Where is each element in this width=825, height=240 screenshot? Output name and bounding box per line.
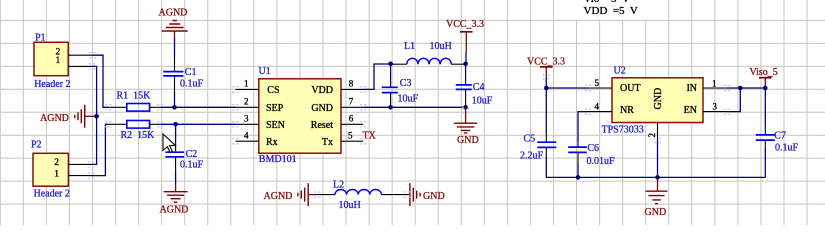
svg-text:IN: IN: [686, 83, 697, 94]
mouse cursor: [163, 134, 176, 152]
svg-text:L1: L1: [404, 41, 415, 52]
svg-text:8: 8: [349, 78, 354, 88]
U2 pin 2 GND: [647, 88, 664, 140]
svg-text:R1 15K: R1 15K: [117, 91, 152, 102]
svg-text:4: 4: [244, 130, 249, 140]
svg-text:VCC_3.3: VCC_3.3: [527, 57, 565, 68]
wire U2 NR to C6: [578, 112, 588, 141]
wire C1 to R1 net: [174, 92, 176, 107]
wire Viso to C7: [764, 85, 766, 127]
junction U2 OUT / VCC: [544, 86, 549, 91]
svg-text:U2: U2: [614, 66, 626, 77]
svg-text:C2: C2: [186, 149, 198, 160]
wire C5 to rail: [546, 156, 578, 177]
U1 pin 1 CS: [236, 79, 280, 97]
svg-text:0.1uF: 0.1uF: [180, 160, 204, 171]
inductor L2: [316, 180, 409, 212]
junction C6/rail: [576, 175, 581, 180]
svg-text:4: 4: [595, 102, 600, 112]
svg-text:GND: GND: [653, 88, 664, 110]
capacitor C4: [456, 64, 493, 108]
power Viso_5: [750, 67, 778, 85]
wire VCC column to rail: [545, 77, 547, 134]
junction C4 bottom: [463, 105, 468, 110]
svg-text:0.1uF: 0.1uF: [180, 79, 204, 90]
header P2: [31, 140, 91, 200]
ground GND at L2: [410, 183, 445, 206]
regulator U2 TPS73033 body: [602, 66, 704, 136]
U1 pin 5 Tx: [322, 130, 363, 148]
svg-text:5: 5: [348, 130, 353, 140]
svg-text:CS: CS: [267, 85, 279, 96]
header P1: [34, 32, 93, 90]
svg-text:1: 1: [244, 79, 249, 89]
svg-text:P1: P1: [35, 32, 46, 43]
svg-text:VCC_3.3: VCC_3.3: [446, 19, 484, 30]
svg-text:10uF: 10uF: [398, 94, 419, 105]
wire U2 GND to rail: [657, 140, 659, 177]
wire U1 pin8 to L1: [363, 64, 392, 89]
svg-text:C1: C1: [185, 67, 197, 78]
junction Viso / C7: [763, 86, 768, 91]
svg-text:OUT: OUT: [620, 83, 641, 94]
svg-text:C6: C6: [587, 143, 599, 154]
svg-text:3: 3: [244, 114, 249, 124]
svg-text:R2 15K: R2 15K: [121, 130, 156, 141]
wire C2 to R2 net: [175, 124, 177, 140]
wire P2 pin1 to R2: [91, 124, 109, 175]
resistor R1: [109, 91, 161, 112]
wire U2 OUT to VCC column: [546, 87, 588, 89]
power AGND left: [40, 105, 95, 128]
svg-text:1: 1: [54, 169, 59, 179]
inductor L1: [392, 41, 465, 64]
junction C1/R1: [172, 105, 177, 110]
svg-text:AGND: AGND: [264, 191, 293, 202]
IC U1 BMD101 body: [259, 66, 342, 165]
wire R1 to U1 pin2: [160, 106, 235, 108]
junction L1 right / C4 / VCC: [463, 62, 468, 67]
svg-text:TPS73033: TPS73033: [602, 124, 644, 135]
svg-text:SEN: SEN: [266, 120, 285, 131]
svg-text:AGND: AGND: [160, 205, 189, 216]
svg-text:EN: EN: [684, 105, 697, 116]
svg-text:C7: C7: [774, 131, 786, 142]
svg-text:AGND: AGND: [159, 8, 188, 19]
junction C2/R2: [173, 122, 178, 127]
svg-text:P2: P2: [31, 140, 42, 151]
svg-text:GND: GND: [645, 207, 667, 218]
power AGND bottom: [160, 184, 189, 216]
svg-text:GND: GND: [457, 135, 479, 146]
junction U2 GND / rail: [655, 175, 660, 180]
U2 pin 1 IN: [686, 78, 727, 94]
power VCC_3.3 top: [446, 19, 484, 52]
svg-text:Header 2: Header 2: [34, 79, 70, 90]
svg-text:C5: C5: [524, 134, 536, 145]
capacitor C6: [568, 141, 615, 167]
junction AGND tap: [94, 114, 99, 119]
svg-text:5: 5: [595, 78, 600, 88]
capacitor C2: [165, 140, 203, 172]
svg-text:Viso_5: Viso_5: [750, 67, 778, 78]
text frame VDD note: [572, 0, 661, 20]
junction L1 left / C3: [388, 62, 393, 67]
wire U2 EN riser: [727, 88, 740, 112]
svg-text:GND: GND: [423, 191, 445, 202]
wire R2 to U1 pin3: [160, 123, 235, 125]
svg-text:10uH: 10uH: [339, 200, 361, 211]
svg-text:SEP: SEP: [266, 103, 284, 114]
U2 pin 5 OUT: [588, 78, 641, 94]
power AGND at L2: [264, 183, 317, 206]
U1 pin 8 VDD: [311, 78, 363, 96]
pin-end markers: [88, 53, 731, 198]
svg-text:10uF: 10uF: [472, 95, 493, 106]
svg-text:2: 2: [54, 158, 59, 168]
svg-text:2.2uF: 2.2uF: [520, 151, 544, 162]
wire AGND to C1: [174, 39, 176, 57]
capacitor C3: [382, 64, 419, 108]
U2 pin 3 EN: [684, 101, 727, 116]
U1 pin 7 GND: [311, 97, 363, 115]
capacitor C7: [756, 127, 799, 153]
pin stubs P2: [68, 164, 91, 175]
power AGND top: [159, 8, 188, 40]
wire U1 pin7 to C4/GND: [363, 106, 465, 108]
svg-text:2: 2: [244, 97, 249, 107]
wire VCC to L1 node: [464, 52, 466, 64]
svg-text:NR: NR: [620, 105, 634, 116]
svg-text:Header 2: Header 2: [34, 188, 70, 199]
svg-text:AGND: AGND: [40, 113, 69, 124]
svg-text:VDD =5 V: VDD =5 V: [584, 5, 638, 17]
U1 pin 3 SEN: [236, 114, 285, 132]
wire AGND vertical P1 pin1 to P2 pin2: [91, 66, 97, 164]
svg-text:GND: GND: [311, 103, 333, 114]
U1 pin 4 Rx: [236, 130, 278, 148]
svg-text:Reset: Reset: [311, 120, 333, 131]
U2 pin 4 NR: [588, 102, 634, 116]
svg-text:1: 1: [712, 78, 717, 88]
svg-text:L2: L2: [333, 180, 344, 191]
svg-text:C3: C3: [400, 78, 412, 89]
svg-text:2: 2: [647, 133, 657, 138]
capacitor C1: [163, 57, 203, 92]
resistor R2: [109, 121, 161, 142]
wire C7 to rail: [764, 148, 766, 177]
wire U2 IN to Viso: [727, 87, 765, 89]
svg-text:1: 1: [56, 56, 61, 66]
svg-text:TX: TX: [363, 130, 377, 141]
pin stubs P1: [68, 55, 93, 66]
wire C6 to rail: [577, 163, 579, 177]
power VCC_3.3 at U2: [527, 57, 565, 77]
svg-text:0.1uF: 0.1uF: [775, 142, 799, 153]
svg-text:U1: U1: [259, 66, 271, 77]
svg-text:VDD: VDD: [311, 85, 333, 96]
capacitor C5: [520, 134, 556, 162]
ground GND under U2: [645, 177, 668, 218]
svg-text:C4: C4: [473, 82, 485, 93]
svg-text:Tx: Tx: [322, 137, 333, 148]
wire C2 to AGND: [175, 172, 177, 184]
junction C3 bottom: [388, 105, 393, 110]
U1 pin 6 Reset: [311, 114, 364, 132]
ground rail wire: [578, 176, 765, 178]
junction EN riser: [738, 86, 743, 91]
ground GND under C4: [454, 107, 479, 146]
U1 pin 2 SEP: [236, 97, 284, 115]
svg-text:BMD101: BMD101: [259, 154, 297, 165]
svg-text:3: 3: [713, 101, 718, 111]
wire P1 pin2 to R1: [93, 55, 109, 107]
svg-text:0.01uF: 0.01uF: [587, 156, 616, 167]
svg-text:7: 7: [349, 97, 354, 107]
svg-text:Rx: Rx: [266, 137, 278, 148]
svg-text:6: 6: [349, 114, 354, 124]
svg-text:10uH: 10uH: [430, 41, 452, 52]
